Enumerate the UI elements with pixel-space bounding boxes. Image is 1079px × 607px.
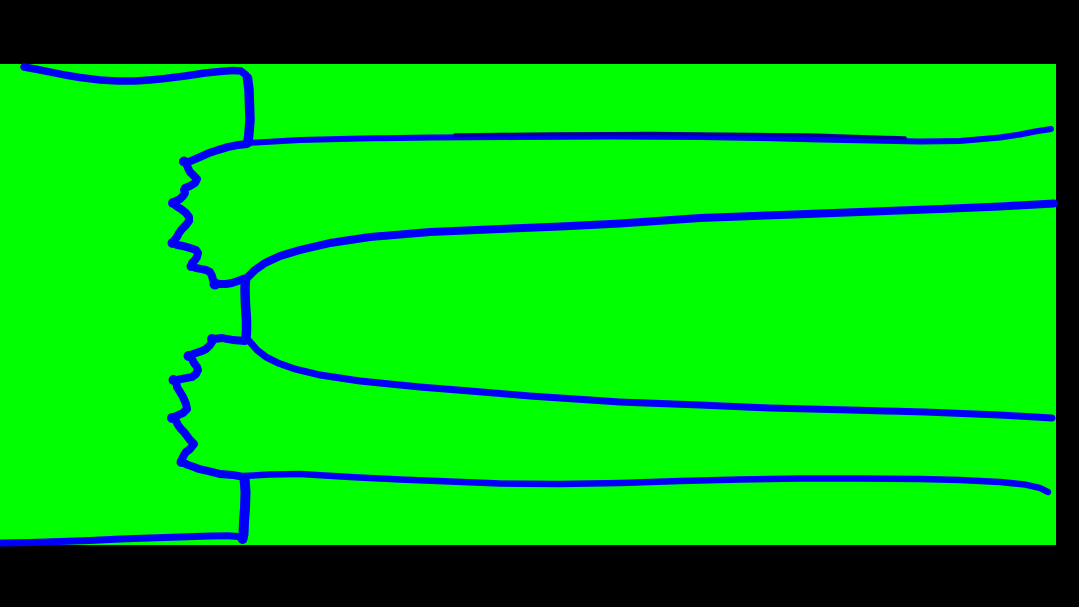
node blob R1 bottom knob <box>210 279 221 290</box>
wire: top rail from node A to right edge <box>247 129 1051 143</box>
wire: top-left input lead, corner, vertical drop to node A <box>24 67 248 81</box>
node blob R2 right bump b <box>190 441 197 448</box>
node blob R2 bottom knob <box>177 457 187 467</box>
node blob R1 knob 3 <box>168 238 178 248</box>
node blob R1 right bump <box>193 176 199 182</box>
node blob R2 top knob <box>207 334 217 344</box>
wire: second rail rising to right edge <box>245 204 1054 281</box>
node blob R1 small bend <box>208 271 215 278</box>
node blob R1 knob 1 <box>179 157 189 167</box>
wire: bottom-left return lead <box>0 536 242 543</box>
wire: third rail falling to right edge <box>246 338 1052 418</box>
resistor R2 zigzag with leads <box>174 338 245 477</box>
wire: lower vertical below R2 <box>243 478 246 539</box>
resistor R1 zigzag with leads <box>173 144 247 284</box>
node blob R2 knob 3 <box>169 375 179 385</box>
wire: bottom rail to right edge <box>244 474 1048 492</box>
node blob R1 knob 4 <box>187 262 196 271</box>
green screen area <box>0 64 1056 545</box>
node blob R2 knob 4 <box>167 413 177 423</box>
wire: darker overlap stroke on top rail <box>455 134 905 139</box>
node blob R2 knob 2 <box>184 351 194 361</box>
wire: vertical between R1 and R2 <box>245 279 247 338</box>
wire: vertical drop from corner to node A <box>248 78 251 143</box>
node blob R1 knob 2 <box>168 198 178 208</box>
node blob R2 right bump a <box>194 366 201 373</box>
